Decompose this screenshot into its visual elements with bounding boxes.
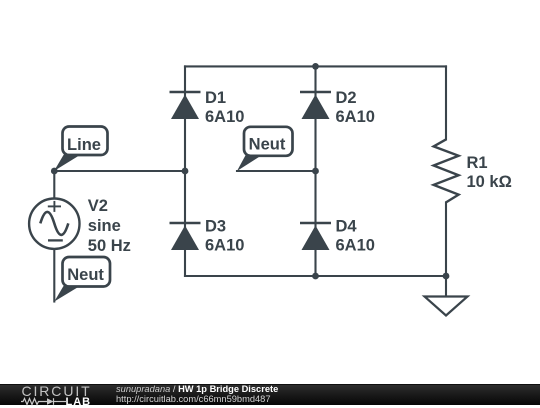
junction node top rail (312, 63, 319, 70)
svg-text:V2: V2 (88, 197, 108, 215)
wire left bridge leg (184, 66, 186, 276)
junction node bottom rail (312, 273, 319, 280)
junction node right bridge mid (312, 168, 319, 175)
wire R1 leg top (445, 66, 447, 139)
svg-text:R1: R1 (467, 154, 488, 172)
junction node ground (443, 273, 450, 280)
ground (425, 297, 468, 316)
wire Line node to bridge (54, 170, 185, 172)
svg-text:Line: Line (67, 136, 101, 154)
diode D3 (170, 223, 201, 250)
svg-text:6A10: 6A10 (205, 237, 244, 255)
svg-text:D3: D3 (205, 218, 226, 236)
resistor R1 (434, 139, 459, 202)
net flag Line (54, 127, 108, 172)
voltage source V2 (29, 199, 79, 249)
wire R1 leg bottom (445, 202, 447, 296)
wire right bridge leg (314, 66, 316, 276)
wire V2 top stub (53, 171, 55, 199)
wire top rail (185, 65, 446, 67)
CircuitLab logo text (22, 383, 92, 399)
net flag Neut (V2 negative) (54, 257, 110, 302)
diode D1 (170, 92, 201, 119)
junction node Line (51, 168, 58, 175)
svg-text:10 kΩ: 10 kΩ (467, 173, 512, 191)
svg-text:Neut: Neut (67, 266, 104, 284)
svg-text:6A10: 6A10 (205, 108, 244, 126)
svg-text:D1: D1 (205, 89, 226, 107)
svg-text:D4: D4 (336, 218, 358, 236)
svg-text:sine: sine (88, 217, 121, 235)
svg-text:Neut: Neut (249, 136, 286, 154)
net flag Neut (bridge midpoint) (237, 127, 293, 171)
footer bar (0, 384, 540, 406)
svg-text:D2: D2 (336, 89, 357, 107)
logo schematic squiggle (21, 397, 71, 406)
diode D4 (300, 223, 331, 250)
diode D2 (300, 92, 331, 119)
svg-text:6A10: 6A10 (336, 108, 375, 126)
svg-text:6A10: 6A10 (336, 237, 375, 255)
junction node left bridge mid (182, 168, 189, 175)
svg-text:50 Hz: 50 Hz (88, 237, 131, 255)
wire V2 bottom stub (53, 249, 55, 302)
wire Neut flag to bridge mid (237, 170, 316, 172)
footer credit text (116, 385, 278, 404)
wire bottom rail (185, 275, 446, 277)
